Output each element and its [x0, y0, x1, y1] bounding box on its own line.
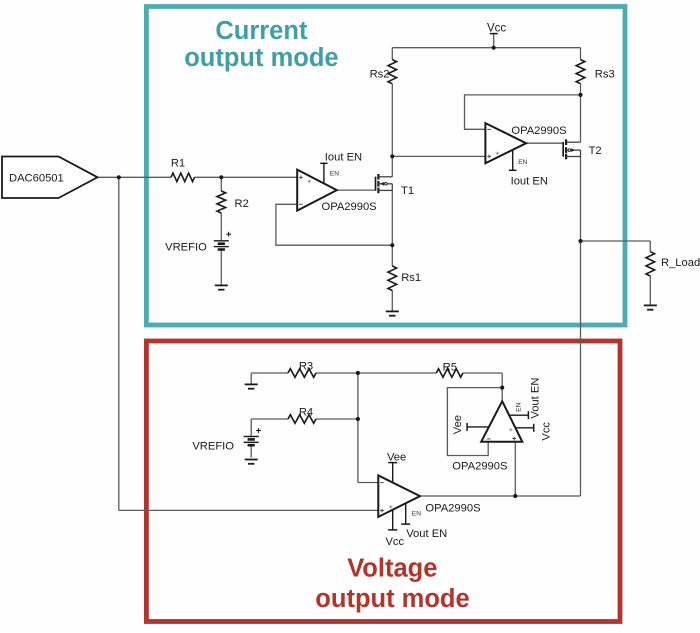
svg-text:Voltage: Voltage — [347, 555, 437, 583]
svg-text:OPA2990S: OPA2990S — [322, 201, 377, 213]
svg-text:T1: T1 — [401, 185, 414, 197]
svg-text:OPA2990S: OPA2990S — [425, 502, 480, 514]
svg-text:EN: EN — [516, 402, 523, 411]
svg-text:R_Load: R_Load — [661, 257, 700, 269]
svg-text:R4: R4 — [299, 407, 313, 419]
svg-text:T2: T2 — [589, 145, 602, 157]
svg-text:output mode: output mode — [184, 44, 338, 72]
svg-text:Vcc: Vcc — [385, 536, 404, 548]
svg-text:Vcc: Vcc — [487, 22, 506, 34]
svg-text:Rs3: Rs3 — [595, 69, 615, 81]
svg-text:output mode: output mode — [315, 585, 469, 613]
svg-text:OPA2990S: OPA2990S — [452, 460, 507, 472]
svg-text:R2: R2 — [235, 198, 249, 210]
svg-text:Rs1: Rs1 — [401, 272, 421, 284]
svg-text:Rs2: Rs2 — [370, 69, 390, 81]
svg-text:EN: EN — [330, 171, 339, 178]
svg-text:EN: EN — [412, 510, 421, 517]
svg-text:DAC60501: DAC60501 — [9, 173, 64, 185]
svg-text:VREFIO: VREFIO — [192, 441, 234, 453]
svg-text:OPA2990S: OPA2990S — [511, 125, 566, 137]
svg-text:Vee: Vee — [387, 451, 406, 463]
svg-text:R1: R1 — [171, 158, 185, 170]
svg-text:Vout EN: Vout EN — [530, 378, 542, 419]
svg-text:Vcc: Vcc — [540, 422, 552, 441]
svg-text:R5: R5 — [443, 361, 457, 373]
svg-text:EN: EN — [518, 159, 527, 166]
svg-text:Current: Current — [215, 17, 308, 45]
svg-text:Iout EN: Iout EN — [511, 176, 548, 188]
svg-text:Vee: Vee — [452, 415, 464, 434]
svg-text:Vout EN: Vout EN — [406, 528, 447, 540]
svg-text:Iout EN: Iout EN — [325, 151, 362, 163]
svg-text:R3: R3 — [299, 360, 313, 372]
svg-text:VREFIO: VREFIO — [165, 242, 207, 254]
